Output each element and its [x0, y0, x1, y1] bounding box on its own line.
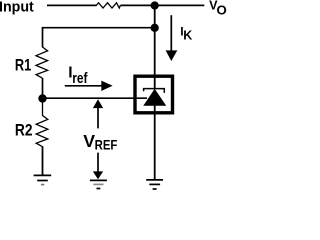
arrow Vref down head [97, 153, 99, 172]
svg-text:Input: Input [0, 0, 34, 16]
arrow Ik [170, 15, 172, 51]
svg-text:ref: ref [72, 70, 88, 87]
zener triangle (anode) [143, 89, 166, 106]
zener cathode bar with hooks [144, 89, 165, 93]
svg-text:V: V [83, 131, 95, 151]
wire anode to ground [154, 105, 156, 179]
wire reference (node to U1) [43, 97, 148, 99]
svg-text:R1: R1 [15, 57, 31, 75]
wire upper-left branch (corner to cathode rail) [43, 28, 155, 48]
arrow Vref up head [93, 99, 103, 108]
resistor R1 [36, 47, 48, 78]
wire R2 stem to ground [42, 147, 44, 176]
junction dot top [151, 1, 159, 9]
svg-text:O: O [217, 3, 227, 18]
resistor R2 [36, 99, 48, 176]
junction dot cathode rail [151, 24, 159, 32]
wire R1 to node [42, 78, 44, 99]
wire resistor to Vo [121, 4, 205, 6]
shunt regulator body U1 (box) [135, 76, 173, 113]
junction dot divider node [38, 94, 46, 102]
ground (under R2) [34, 175, 52, 184]
wire cathode (rail into U1) [154, 6, 156, 89]
arrow Iref [65, 85, 102, 87]
svg-text:R2: R2 [15, 121, 33, 139]
svg-text:K: K [183, 29, 192, 43]
wire input to resistor [47, 4, 97, 6]
svg-text:REF: REF [95, 138, 118, 153]
ground (under Vref) [90, 180, 107, 188]
ground (under U1) [146, 180, 163, 189]
resistor (input series, unlabeled) [96, 3, 120, 8]
